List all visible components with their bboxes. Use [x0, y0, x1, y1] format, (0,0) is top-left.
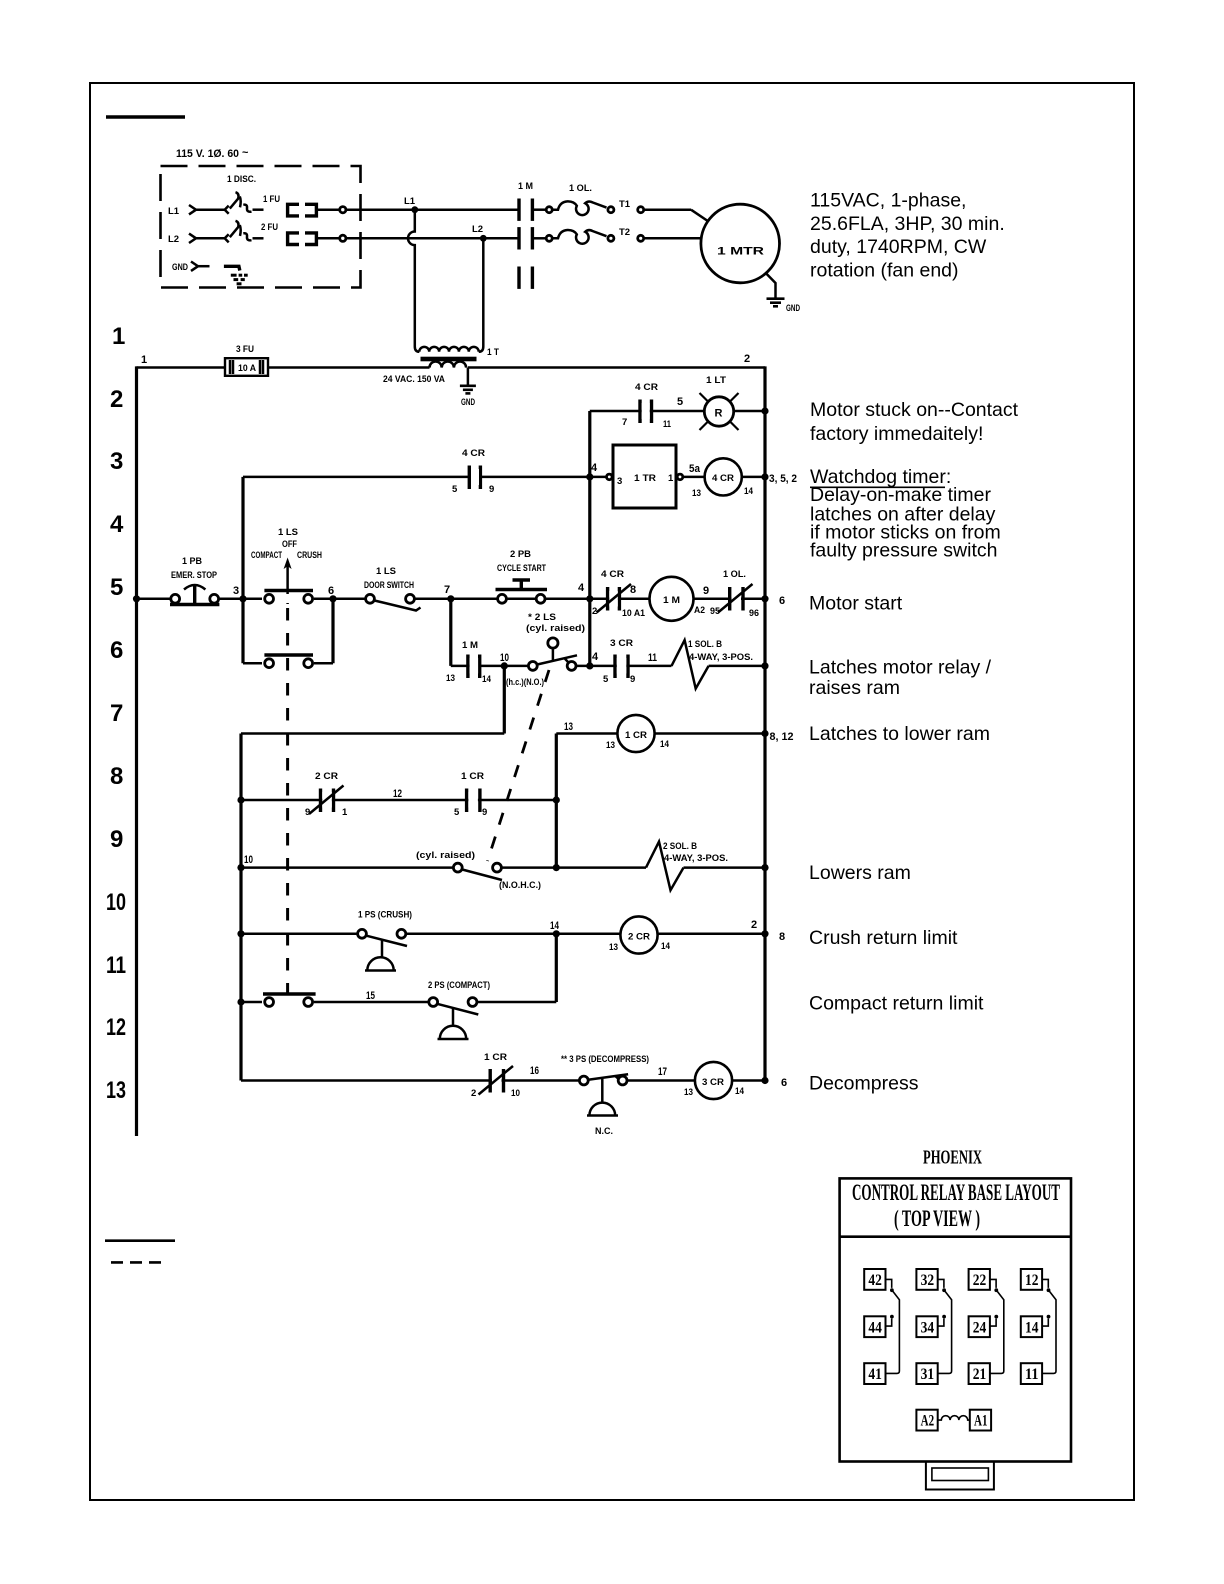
rung11 wire	[241, 1001, 556, 1004]
svg-text:11: 11	[648, 652, 657, 664]
svg-text:T1: T1	[619, 199, 631, 210]
svg-text:5: 5	[452, 484, 458, 495]
svg-text:1 PB: 1 PB	[182, 556, 202, 567]
coil 1M motor starter	[650, 577, 694, 621]
coil 4CR	[705, 458, 742, 495]
svg-text:** 3 PS (DECOMPRESS): ** 3 PS (DECOMPRESS)	[561, 1054, 649, 1065]
disconnect blade L1	[225, 206, 229, 214]
rung7 wires	[503, 666, 506, 734]
svg-text:96: 96	[749, 608, 759, 619]
relay base outer box	[840, 1178, 1071, 1461]
node 14 (rung10)	[553, 930, 560, 937]
wire L2 drop	[479, 238, 484, 351]
svg-text:rotation (fan end): rotation (fan end)	[810, 259, 959, 281]
net14 vertical	[555, 934, 558, 1002]
rung2 wire	[590, 410, 765, 413]
svg-text:L1: L1	[168, 206, 180, 217]
svg-text:Compact return limit: Compact return limit	[809, 992, 984, 1014]
svg-text:10: 10	[511, 1088, 520, 1099]
svg-text:14: 14	[1025, 1319, 1039, 1336]
svg-text:10 A: 10 A	[238, 363, 256, 374]
overload 1OL heater L1	[532, 208, 546, 211]
svg-text:1 LS: 1 LS	[376, 566, 396, 577]
ground switch blade	[224, 266, 240, 270]
heading rule top-left	[106, 115, 185, 119]
svg-text:1: 1	[668, 473, 674, 484]
pin 31	[916, 1363, 937, 1384]
svg-text:1 OL.: 1 OL.	[569, 183, 592, 194]
node net13 / rung9	[553, 864, 560, 871]
svg-text:1 TR: 1 TR	[634, 473, 656, 484]
svg-text:9: 9	[110, 826, 123, 853]
svg-text:(h.c.)(N.O.): (h.c.)(N.O.)	[506, 677, 544, 688]
svg-text:Decompress: Decompress	[809, 1073, 919, 1095]
svg-text:Motor stuck on--Contact: Motor stuck on--Contact	[810, 399, 1019, 421]
pin A1	[970, 1410, 991, 1431]
svg-text:1 M: 1 M	[663, 595, 680, 606]
svg-text:OFF: OFF	[282, 539, 297, 550]
transformer 1T secondary	[430, 362, 467, 368]
selector 1LS upper contact (crush)	[262, 594, 314, 603]
svg-text:1: 1	[141, 354, 147, 366]
node rung5 / left rail	[133, 595, 140, 602]
solenoid 2SOLB	[646, 842, 684, 891]
svg-text:17: 17	[658, 1066, 667, 1078]
node 3 (rung5)	[239, 595, 246, 602]
coil 2CR	[620, 916, 657, 953]
svg-text:Lowers ram: Lowers ram	[809, 862, 911, 884]
svg-text:2 CR: 2 CR	[628, 932, 650, 943]
wire L2 run	[346, 237, 518, 240]
node L2 tap	[480, 235, 487, 242]
svg-text:CRUSH: CRUSH	[297, 550, 322, 561]
svg-text:1 SOL. B: 1 SOL. B	[688, 639, 722, 650]
svg-text:COMPACT: COMPACT	[251, 550, 282, 561]
node 7 (rung5)	[447, 595, 454, 602]
svg-text:5: 5	[110, 574, 123, 601]
svg-text:14: 14	[550, 920, 560, 932]
selector 1LS third contact (rung11)	[262, 998, 314, 1007]
svg-text:9: 9	[703, 585, 709, 597]
svg-text:15: 15	[366, 990, 375, 1002]
svg-text:10: 10	[106, 889, 126, 916]
node rung5 / right rail	[761, 595, 768, 602]
svg-text:2 CR: 2 CR	[315, 771, 338, 782]
svg-text:24 VAC. 150 VA: 24 VAC. 150 VA	[383, 374, 445, 385]
svg-text:1 OL.: 1 OL.	[723, 569, 746, 580]
svg-text:GND: GND	[461, 397, 475, 408]
coil 1CR	[617, 715, 654, 752]
node L1 tap	[411, 206, 418, 213]
rung13 wire	[241, 1079, 765, 1082]
node rung3 / right rail	[761, 473, 768, 480]
svg-text:A2: A2	[694, 605, 705, 616]
pin 34	[916, 1316, 937, 1337]
svg-text:faulty pressure switch: faulty pressure switch	[810, 539, 998, 561]
disconnect enclosure (dashed box)	[161, 166, 361, 288]
svg-text:1 LS: 1 LS	[278, 527, 298, 538]
svg-text:CONTROL RELAY BASE LAYOUT: CONTROL RELAY BASE LAYOUT	[852, 1180, 1060, 1205]
svg-text:~: ~	[242, 147, 249, 159]
svg-text:9: 9	[482, 807, 487, 818]
node 6 (rung5)	[329, 595, 336, 602]
svg-text:9: 9	[489, 484, 494, 495]
svg-text:7: 7	[444, 584, 450, 596]
svg-text:6: 6	[110, 637, 123, 664]
svg-text:2 PB: 2 PB	[510, 549, 531, 560]
svg-text:9: 9	[305, 807, 310, 818]
svg-text:13: 13	[609, 942, 618, 953]
svg-text:1 DISC.: 1 DISC.	[227, 174, 256, 185]
svg-text:13: 13	[606, 740, 615, 751]
svg-text:5: 5	[677, 396, 683, 408]
svg-text:Crush return limit: Crush return limit	[809, 927, 958, 949]
svg-text:R: R	[715, 408, 723, 420]
wire L1 drop with hop over L2	[408, 210, 419, 352]
svg-text:5: 5	[603, 674, 609, 685]
contact wire 22-21	[990, 1292, 1004, 1374]
svg-text:6: 6	[781, 1077, 787, 1089]
pin 14	[1021, 1316, 1042, 1337]
node net10 / rung9	[237, 864, 244, 871]
pin 11	[1021, 1363, 1042, 1384]
svg-text:GND: GND	[786, 303, 800, 314]
svg-text:A1: A1	[974, 1413, 988, 1430]
svg-text:6: 6	[328, 585, 334, 597]
svg-text:8: 8	[630, 584, 636, 596]
svg-text:14: 14	[744, 486, 754, 497]
svg-text:1 PS (CRUSH): 1 PS (CRUSH)	[358, 910, 412, 921]
svg-text:4 CR: 4 CR	[601, 569, 624, 580]
node net13 / rung8	[553, 796, 560, 803]
timer 1TR box	[607, 474, 613, 480]
svg-text:25.6FLA, 3HP, 30 min.: 25.6FLA, 3HP, 30 min.	[810, 213, 1005, 235]
pin 41	[864, 1363, 885, 1384]
pin A2	[916, 1410, 937, 1431]
svg-text:13: 13	[564, 721, 573, 733]
svg-text:2: 2	[751, 919, 757, 931]
contact wire 12-11	[1042, 1292, 1056, 1374]
svg-text:Latches to lower ram: Latches to lower ram	[809, 723, 990, 745]
solenoid 1SOLB	[672, 640, 709, 689]
svg-text:PHOENIX: PHOENIX	[923, 1147, 982, 1169]
rung8 wire	[241, 799, 556, 802]
svg-text:11: 11	[1025, 1366, 1039, 1383]
transformer 1T primary	[419, 347, 478, 352]
svg-text:12: 12	[1025, 1272, 1039, 1289]
svg-text:13: 13	[692, 488, 701, 499]
svg-text:16: 16	[530, 1065, 539, 1077]
svg-text:14: 14	[735, 1086, 745, 1097]
svg-text:22: 22	[973, 1272, 987, 1289]
svg-text:6: 6	[779, 595, 785, 607]
svg-text:7: 7	[622, 417, 627, 428]
svg-text:10 A1: 10 A1	[622, 608, 646, 619]
svg-text:Latches motor relay /: Latches motor relay /	[809, 657, 992, 679]
rung10 wire	[241, 933, 765, 936]
svg-text:3, 5, 2: 3, 5, 2	[769, 473, 797, 485]
transformer 1T core bar	[421, 357, 477, 362]
svg-text:41: 41	[868, 1366, 882, 1383]
svg-text:1 FU: 1 FU	[263, 194, 280, 205]
svg-text:GND: GND	[172, 262, 188, 273]
svg-text:A2: A2	[921, 1413, 935, 1430]
svg-text:1 MTR: 1 MTR	[717, 246, 764, 258]
svg-text:2 FU: 2 FU	[261, 222, 278, 233]
rung9 wire	[241, 866, 646, 869]
pin 22	[969, 1269, 990, 1290]
legend dashed line	[111, 1261, 164, 1264]
svg-text:14: 14	[661, 941, 671, 952]
contact wire 32-31	[938, 1292, 952, 1374]
svg-text:4-WAY, 3-POS.: 4-WAY, 3-POS.	[689, 652, 753, 663]
svg-text:4: 4	[578, 582, 585, 594]
pin 12	[1021, 1269, 1042, 1290]
svg-text:2: 2	[592, 606, 597, 617]
motor 1MTR	[701, 204, 780, 283]
svg-text:L1: L1	[404, 196, 416, 207]
rung5 wire	[137, 598, 766, 601]
legend solid line	[105, 1239, 175, 1242]
selector 1LS arrow	[284, 558, 292, 570]
pin 21	[969, 1363, 990, 1384]
svg-text:24: 24	[973, 1319, 987, 1336]
svg-text:1 LT: 1 LT	[706, 375, 726, 386]
motor ground	[766, 273, 776, 297]
svg-text:8, 12: 8, 12	[770, 731, 794, 743]
svg-text:42: 42	[868, 1272, 882, 1289]
node rung10 / right rail	[761, 930, 768, 937]
svg-text:1 M: 1 M	[518, 181, 533, 192]
rung6 wire	[451, 665, 672, 668]
disconnect blade L2	[225, 234, 229, 242]
svg-text:12: 12	[106, 1014, 126, 1041]
rung3 wire	[243, 476, 607, 479]
svg-text:factory immedaitely!: factory immedaitely!	[810, 423, 983, 445]
svg-text:4: 4	[110, 511, 124, 538]
svg-text:(cyl. raised): (cyl. raised)	[416, 850, 475, 861]
svg-text:13: 13	[684, 1087, 693, 1098]
svg-text:CYCLE START: CYCLE START	[497, 563, 546, 574]
svg-text:8: 8	[779, 931, 785, 943]
overload 1OL heater L2	[532, 237, 546, 240]
svg-text:10: 10	[500, 652, 509, 664]
net4 vertical	[588, 411, 591, 666]
chassis ground (dashed)	[231, 275, 248, 284]
left rail	[135, 366, 138, 1136]
svg-text:L2: L2	[168, 234, 179, 245]
relay coil A2-A1	[938, 1416, 970, 1420]
node net10 / rung11	[237, 998, 244, 1005]
svg-text:10: 10	[244, 854, 253, 866]
svg-text:2: 2	[471, 1088, 476, 1099]
svg-text:3: 3	[110, 448, 123, 475]
secondary ground	[467, 368, 470, 385]
svg-text:3 CR: 3 CR	[702, 1077, 724, 1088]
node rung2 / right rail	[761, 407, 768, 414]
svg-text:L2: L2	[472, 224, 483, 235]
node 4 (rung5)	[586, 595, 593, 602]
node net10 / rung8	[237, 796, 244, 803]
svg-text:34: 34	[921, 1319, 935, 1336]
selector mechanical dashed link	[286, 608, 289, 995]
svg-text:115 V. 1Ø. 60: 115 V. 1Ø. 60	[176, 148, 239, 160]
svg-text:Motor start: Motor start	[809, 593, 903, 615]
node rung9 / right rail	[761, 864, 768, 871]
rung1 wire to transformer and right rail	[268, 366, 430, 369]
net3 vertical	[241, 477, 244, 663]
svg-text:95: 95	[710, 606, 721, 617]
pin 24	[969, 1316, 990, 1337]
svg-text:1 CR: 1 CR	[625, 730, 647, 741]
svg-text:( TOP VIEW ): ( TOP VIEW )	[894, 1206, 980, 1231]
svg-text:1 CR: 1 CR	[484, 1052, 507, 1063]
svg-text:13: 13	[106, 1077, 126, 1104]
svg-text:1: 1	[342, 807, 348, 818]
node rung13 / right rail	[761, 1077, 768, 1084]
svg-text:5a: 5a	[689, 463, 701, 475]
svg-text:12: 12	[393, 788, 402, 800]
svg-text:T2: T2	[619, 227, 630, 238]
svg-text:32: 32	[921, 1272, 935, 1289]
svg-text:EMER. STOP: EMER. STOP	[171, 570, 218, 581]
svg-text:1 CR: 1 CR	[461, 771, 484, 782]
net13 vertical	[555, 734, 558, 868]
svg-text:1: 1	[112, 323, 125, 350]
svg-text:4 CR: 4 CR	[712, 473, 734, 484]
coil 3CR	[695, 1062, 732, 1099]
svg-text:3: 3	[617, 476, 622, 487]
svg-text:3 FU: 3 FU	[236, 344, 254, 355]
svg-text:5: 5	[454, 807, 460, 818]
svg-text:(cyl. raised): (cyl. raised)	[526, 623, 585, 634]
svg-text:2: 2	[110, 386, 123, 413]
svg-text:3: 3	[233, 585, 239, 597]
svg-text:4: 4	[592, 651, 599, 663]
svg-text:* 2 LS: * 2 LS	[528, 612, 556, 623]
svg-text:11: 11	[663, 419, 672, 430]
svg-text:4 CR: 4 CR	[462, 448, 485, 459]
svg-text:1 T: 1 T	[487, 347, 499, 358]
right rail	[763, 366, 766, 1080]
relay socket tab	[926, 1462, 994, 1490]
svg-text:N.C.: N.C.	[595, 1126, 613, 1137]
svg-text:31: 31	[921, 1366, 935, 1383]
pin 42	[864, 1269, 885, 1290]
pin 32	[916, 1269, 937, 1290]
svg-text:duty, 1740RPM, CW: duty, 1740RPM, CW	[810, 236, 987, 258]
selector 1LS lower contact (compact) branch	[243, 662, 333, 665]
node rung6 / right rail	[761, 662, 768, 669]
svg-text:(N.O.H.C.): (N.O.H.C.)	[499, 880, 541, 891]
pin 44	[864, 1316, 885, 1337]
svg-text:21: 21	[973, 1366, 987, 1383]
node 10 (rung6)	[501, 662, 508, 669]
svg-text:7: 7	[110, 700, 123, 727]
svg-text:14: 14	[482, 674, 492, 685]
node rung7 / right rail	[761, 730, 768, 737]
svg-text:DOOR SWITCH: DOOR SWITCH	[364, 580, 414, 591]
svg-text:44: 44	[868, 1319, 882, 1336]
svg-text:2: 2	[744, 353, 750, 365]
svg-text:4: 4	[591, 462, 598, 474]
page border frame	[90, 83, 1134, 1500]
wire L1 run	[346, 208, 518, 211]
svg-text:13: 13	[446, 673, 455, 684]
node 4 (rung3)	[586, 473, 593, 480]
svg-text:4 CR: 4 CR	[635, 382, 658, 393]
net10 vertical	[239, 734, 242, 1081]
svg-text:1 M: 1 M	[462, 640, 478, 651]
node7 vertical	[449, 599, 452, 666]
svg-text:4-WAY, 3-POS.: 4-WAY, 3-POS.	[664, 853, 728, 864]
svg-text:3 CR: 3 CR	[610, 638, 633, 649]
contact wire 42-41	[886, 1292, 900, 1374]
svg-text:9: 9	[630, 674, 635, 685]
node 4 (rung6)	[586, 662, 593, 669]
svg-text:2 PS (COMPACT): 2 PS (COMPACT)	[428, 980, 490, 991]
svg-text:8: 8	[110, 763, 123, 790]
node6 vertical	[331, 599, 334, 663]
rung1 wire left	[137, 366, 226, 369]
svg-text:14: 14	[660, 739, 670, 750]
svg-text:raises ram: raises ram	[809, 677, 900, 699]
svg-text:115VAC, 1-phase,: 115VAC, 1-phase,	[810, 190, 966, 212]
svg-text:11: 11	[106, 952, 126, 979]
svg-text:2 SOL. B: 2 SOL. B	[663, 841, 697, 852]
mech dashed link 2LS to rung9 switch	[488, 670, 550, 861]
node net10 / rung10	[237, 930, 244, 937]
